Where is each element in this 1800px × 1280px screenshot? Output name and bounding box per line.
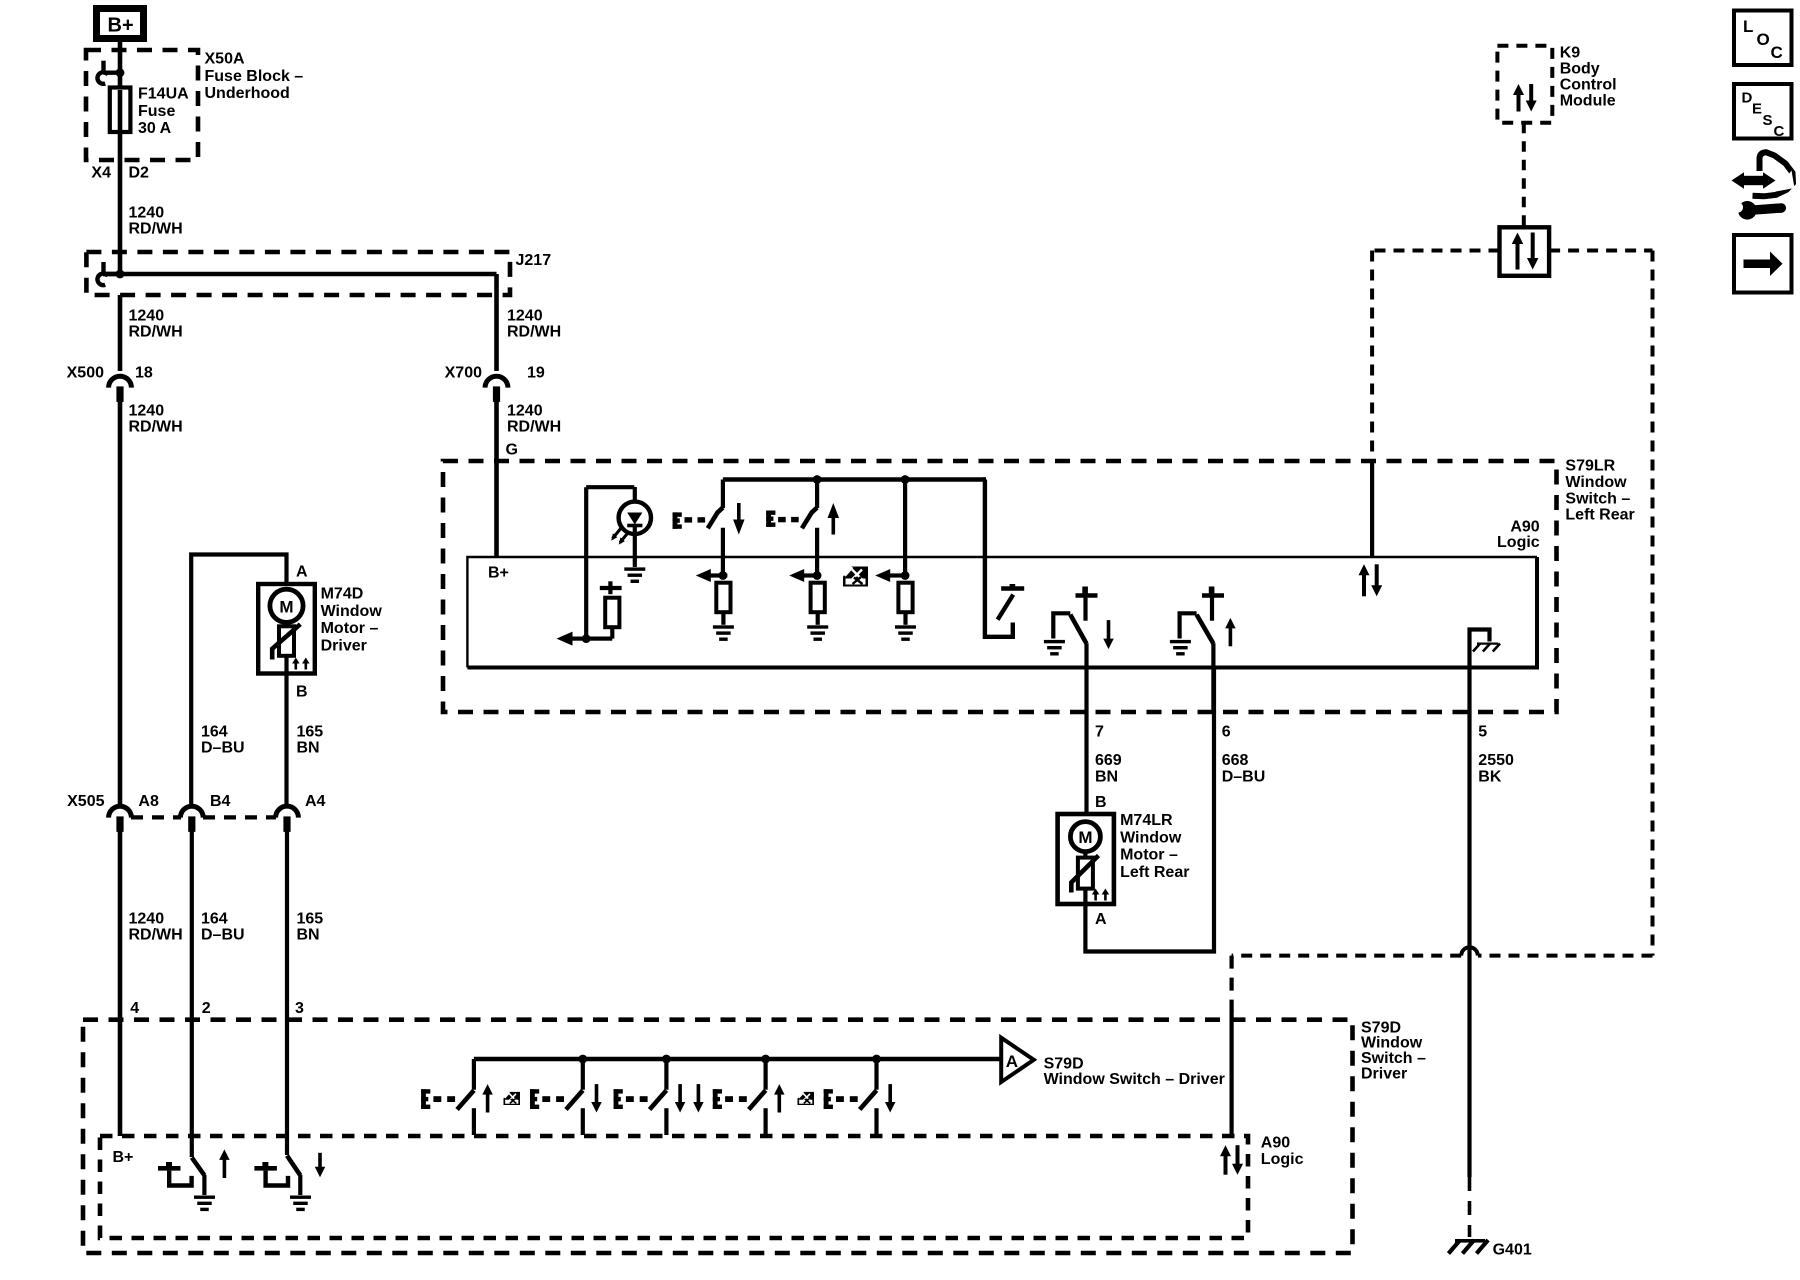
svg-text:2: 2 (202, 1000, 211, 1017)
svg-text:M: M (1078, 828, 1092, 847)
window down switch S79LR (721, 480, 725, 509)
connector X500 pin 18 (109, 376, 132, 387)
K9 logic arrows (1513, 84, 1524, 95)
svg-text:B: B (1095, 794, 1107, 811)
label E lockout (614, 1089, 619, 1109)
svg-text:Driver: Driver (321, 637, 367, 654)
motor circle M74D (270, 589, 303, 622)
svg-text:RD/WH: RD/WH (507, 419, 561, 436)
svg-text:164: 164 (201, 724, 228, 741)
battery feed B+ symbol (97, 9, 144, 39)
position resistor (898, 583, 912, 613)
junction at hook (116, 68, 125, 77)
svg-text:C: C (1771, 43, 1783, 62)
svg-text:X500: X500 (67, 365, 104, 382)
svg-text:30 A: 30 A (138, 120, 172, 137)
svg-text:Logic: Logic (1261, 1151, 1304, 1168)
svg-text:Body: Body (1560, 61, 1600, 78)
svg-text:G: G (506, 441, 518, 458)
svg-text:1240: 1240 (507, 308, 543, 325)
connector X505 dashed line (131, 815, 181, 819)
S79LR internal circuit board box (467, 557, 1537, 668)
svg-text:BN: BN (297, 927, 320, 944)
wire hook to fuse (118, 63, 123, 88)
svg-text:RD/WH: RD/WH (507, 324, 561, 341)
wire J217 to X500 (118, 295, 123, 371)
svg-text:X505: X505 (67, 793, 104, 810)
svg-text:Switch –: Switch – (1565, 490, 1630, 507)
arrow down driver down (885, 1102, 896, 1113)
svg-text:19: 19 (527, 365, 545, 382)
svg-text:7: 7 (1095, 724, 1104, 741)
driver switch left rear down (581, 1059, 585, 1090)
position sense branch (901, 475, 910, 484)
svg-text:Window: Window (1120, 829, 1182, 846)
wire X700 to S79LR pin G (494, 398, 499, 557)
ground position resistor (895, 625, 916, 628)
svg-text:J217: J217 (516, 252, 552, 269)
wire A8 to S79D (118, 828, 123, 1136)
ground up relay (1170, 640, 1191, 643)
up pull resistor (811, 583, 825, 613)
svg-text:S: S (1763, 112, 1773, 129)
icon diagnostic hand (1732, 152, 1795, 219)
logic arrows S79D (1220, 1145, 1231, 1156)
arrow up left rear up (482, 1084, 493, 1095)
dimmer resistor (605, 598, 619, 628)
wire B4 to S79D (190, 828, 194, 1157)
svg-text:E: E (1752, 101, 1762, 118)
connector X505 pin A4 (276, 806, 299, 817)
svg-text:S79D: S79D (1044, 1056, 1084, 1073)
dashed logic line bottom (1478, 954, 1653, 958)
svg-text:O: O (1757, 30, 1770, 49)
logic link wire into S79D (1229, 956, 1233, 1012)
up relay arrow (1225, 618, 1236, 629)
svg-text:K9: K9 (1560, 45, 1581, 62)
svg-text:A: A (1095, 911, 1107, 928)
svg-text:1240: 1240 (129, 205, 165, 222)
label E up switch (766, 511, 771, 527)
window motor driver M74D box (258, 584, 315, 674)
driver down output switch (254, 1166, 277, 1171)
svg-text:A8: A8 (138, 793, 159, 810)
down relay arrow (1103, 639, 1114, 650)
svg-text:C: C (1774, 123, 1785, 140)
LED light arrows (613, 528, 622, 539)
splice J217 dashed box (86, 252, 510, 295)
window icon driver up (797, 1092, 814, 1105)
ground driver up switch (194, 1196, 215, 1199)
dashed logic line left (1372, 249, 1499, 253)
up relay blade (1197, 615, 1214, 644)
up arrow driver output (219, 1149, 230, 1160)
svg-text:RD/WH: RD/WH (129, 927, 183, 944)
ground down relay (1044, 640, 1065, 643)
LED branch output arrow (557, 632, 573, 646)
driver switch lockout (664, 1059, 668, 1090)
window up switch S79LR (813, 475, 822, 484)
svg-text:B+: B+ (108, 15, 134, 37)
svg-text:18: 18 (135, 365, 153, 382)
svg-text:Driver: Driver (1361, 1065, 1407, 1082)
svg-text:Window: Window (321, 603, 383, 620)
junction driver bus 3 (761, 1055, 770, 1064)
svg-text:B+: B+ (113, 1149, 134, 1166)
svg-text:D: D (1742, 90, 1753, 107)
wire J217 down to X700 (494, 274, 499, 371)
driver switch bus (474, 1057, 1001, 1062)
svg-text:M74D: M74D (321, 586, 364, 603)
icon LOC box (1734, 11, 1792, 66)
LED branch left wire (584, 487, 588, 638)
up arrow S79LR top (828, 503, 840, 518)
svg-text:Fuse Block –: Fuse Block – (205, 68, 304, 85)
fuse F14UA (110, 88, 131, 133)
svg-text:BN: BN (297, 740, 320, 757)
down sense arrow (696, 569, 711, 582)
svg-text:X4: X4 (91, 165, 111, 182)
svg-text:1240: 1240 (129, 911, 165, 928)
wire M74D terminal A loop (191, 555, 286, 806)
wire X500 to X505 (118, 398, 123, 805)
label E left rear up (421, 1089, 426, 1109)
icon DESC box (1734, 84, 1792, 139)
svg-text:D–BU: D–BU (201, 927, 245, 944)
svg-text:M: M (279, 597, 293, 616)
body control module K9 dashed box (1497, 46, 1552, 123)
connector hook in fuse block (104, 70, 121, 74)
wire A4 to S79D (285, 828, 289, 1155)
svg-text:164: 164 (201, 911, 228, 928)
svg-text:S79LR: S79LR (1565, 458, 1615, 475)
switch supply bus (723, 477, 986, 482)
wire pin7 to M74LR (1084, 712, 1088, 814)
dashed logic line right (1549, 249, 1652, 253)
arrow down lockout (675, 1102, 686, 1113)
wire pin7 inside box (1084, 643, 1088, 712)
svg-text:BN: BN (1095, 768, 1118, 785)
svg-text:X700: X700 (445, 365, 482, 382)
svg-text:BK: BK (1478, 768, 1502, 785)
svg-text:Fuse: Fuse (138, 103, 175, 120)
svg-text:Motor –: Motor – (1120, 847, 1178, 864)
logic link wire into S79LR (1370, 461, 1374, 557)
svg-text:Underhood: Underhood (205, 85, 290, 102)
wire M74LR terminal A (1083, 889, 1087, 904)
dimmer wiper contact (600, 586, 622, 590)
svg-text:Module: Module (1560, 93, 1616, 110)
svg-text:Left Rear: Left Rear (1565, 507, 1634, 524)
dashed logic drop right (1651, 251, 1655, 956)
bus output contact branch (985, 480, 1013, 637)
S79D window switch driver dashed box (83, 1020, 1353, 1253)
svg-text:Window Switch – Driver: Window Switch – Driver (1044, 1071, 1225, 1088)
svg-text:5: 5 (1478, 724, 1487, 741)
junction J217 (116, 270, 125, 279)
svg-text:Window: Window (1565, 474, 1627, 491)
svg-text:4: 4 (130, 1000, 139, 1017)
svg-text:A: A (1006, 1052, 1018, 1071)
dashed wire K9 to node (1522, 123, 1526, 228)
svg-text:Motor –: Motor – (321, 620, 379, 637)
motor circle M74LR (1070, 822, 1100, 852)
junction LED branch (582, 634, 591, 643)
svg-text:G401: G401 (1493, 1242, 1532, 1259)
ground driver down switch (290, 1196, 311, 1199)
serial data node box (1500, 227, 1550, 275)
arrow up driver up (774, 1084, 785, 1095)
ground up resistor (807, 625, 828, 628)
window icon left rear up (503, 1092, 520, 1105)
arrow down lockout (693, 1102, 704, 1113)
ground G401 (1455, 1239, 1485, 1243)
label E left rear down (530, 1089, 535, 1109)
down relay T contact (1076, 593, 1098, 597)
ground down resistor (713, 625, 734, 628)
svg-text:D–BU: D–BU (1222, 768, 1266, 785)
driver switch left rear up (472, 1059, 476, 1090)
thermal arrows M74D (292, 658, 300, 664)
junction driver bus 1 (578, 1055, 587, 1064)
motor down relay switch (1053, 613, 1070, 638)
svg-text:668: 668 (1222, 752, 1249, 769)
driver switch driver up (763, 1059, 767, 1090)
icon forward arrow box (1734, 235, 1792, 293)
wire J217 horizontal (103, 272, 497, 277)
svg-text:M74LR: M74LR (1120, 812, 1173, 829)
svg-text:B+: B+ (488, 565, 509, 582)
driver up output switch (158, 1166, 181, 1171)
motor up relay switch (1180, 613, 1197, 638)
down arrow S79LR top (733, 520, 745, 535)
window icon S79LR (843, 567, 868, 587)
svg-text:A90: A90 (1261, 1135, 1290, 1152)
wire M74D terminal B (284, 656, 288, 674)
down pull resistor (716, 583, 730, 613)
driver switch driver down (874, 1059, 878, 1090)
svg-text:A4: A4 (305, 793, 326, 810)
connector X505 pin A8 (109, 806, 132, 817)
svg-text:RD/WH: RD/WH (129, 324, 183, 341)
svg-text:RD/WH: RD/WH (129, 419, 183, 436)
junction driver bus 2 (662, 1055, 671, 1064)
internal case ground pin5 (1470, 630, 1490, 668)
svg-text:B: B (296, 684, 308, 701)
S79LR window switch left rear dashed box (443, 461, 1557, 712)
svg-text:L: L (1743, 17, 1753, 36)
thermal element M74D (284, 622, 288, 626)
svg-text:Logic: Logic (1497, 534, 1540, 551)
svg-text:669: 669 (1095, 752, 1122, 769)
svg-text:1240: 1240 (129, 403, 165, 420)
thermal arrows M74LR (1092, 889, 1100, 895)
A90 logic dashed box S79D (100, 1136, 1248, 1238)
fuse block X50A dashed box (86, 50, 198, 160)
bus contact blade (998, 595, 1014, 620)
wire pin6 inside box (1211, 643, 1215, 712)
node arrows (1512, 233, 1524, 245)
output triangle A (1001, 1038, 1034, 1082)
down relay blade (1070, 615, 1086, 644)
wire fuse to J217 (118, 130, 123, 274)
label E down switch (673, 512, 678, 528)
connector hook in J217 (104, 272, 121, 276)
svg-text:Control: Control (1560, 77, 1617, 94)
window motor left rear M74LR box (1058, 814, 1114, 904)
down arrow driver output (315, 1167, 326, 1178)
svg-text:A90: A90 (1510, 519, 1539, 536)
wire B+ to fuse (118, 42, 123, 63)
junction driver bus 4 (872, 1055, 881, 1064)
svg-text:Left Rear: Left Rear (1120, 864, 1189, 881)
svg-text:3: 3 (295, 1000, 304, 1017)
label E driver up (713, 1089, 718, 1109)
svg-text:A: A (296, 564, 308, 581)
svg-text:D2: D2 (129, 165, 150, 182)
svg-text:D–BU: D–BU (201, 740, 245, 757)
connector X505 pin B4 (180, 806, 203, 817)
ground below LED (624, 567, 645, 570)
svg-text:6: 6 (1222, 724, 1231, 741)
logic arrows S79LR (1359, 564, 1370, 575)
svg-text:X50A: X50A (205, 51, 245, 68)
thermal element M74LR (1083, 852, 1087, 858)
wire pin5 to G401 (1467, 668, 1471, 1178)
svg-text:B4: B4 (210, 793, 231, 810)
svg-text:165: 165 (297, 724, 324, 741)
backlight LED (619, 502, 651, 534)
position sense arrow (875, 569, 890, 582)
up relay T contact (1202, 593, 1224, 597)
up sense arrow (789, 569, 804, 582)
svg-text:165: 165 (297, 911, 324, 928)
connector X700 pin 19 (485, 376, 508, 387)
dashed logic drop to S79LR (1370, 251, 1374, 462)
LED feed bar (586, 485, 634, 489)
hop over wire 2550 (1461, 947, 1478, 955)
label E driver down (824, 1089, 829, 1109)
arrow down left rear down (591, 1102, 602, 1113)
svg-text:2550: 2550 (1478, 752, 1514, 769)
svg-text:1240: 1240 (507, 403, 543, 420)
svg-text:F14UA: F14UA (138, 86, 189, 103)
bus contact T-bar (1001, 586, 1024, 590)
svg-text:RD/WH: RD/WH (129, 221, 183, 238)
svg-text:1240: 1240 (129, 308, 165, 325)
